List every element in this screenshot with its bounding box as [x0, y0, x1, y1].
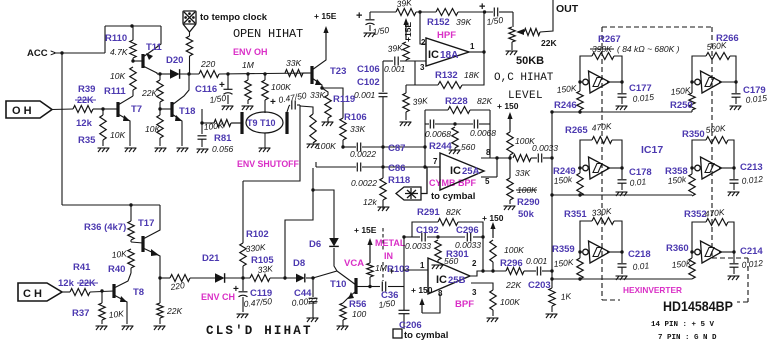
value 18K R132: [464, 70, 479, 80]
value 82K R228: [477, 96, 492, 106]
wire R41 to T8: [90, 291, 114, 292]
svg-text:0.001: 0.001: [526, 256, 548, 266]
resistor R41 12k: [70, 289, 90, 296]
label T11: [146, 42, 163, 53]
svg-text:25B: 25B: [448, 275, 466, 286]
inverter osc1: [583, 71, 610, 93]
ground 0.056 cap: [197, 149, 209, 153]
svg-text:0.0022: 0.0022: [350, 149, 376, 159]
OH input connector: [6, 101, 52, 118]
svg-text:39K: 39K: [456, 17, 471, 27]
svg-text:39K: 39K: [387, 42, 403, 54]
node T11 base: [131, 59, 134, 62]
pin 3 label IC18A: [420, 63, 425, 72]
ground 100K mid: [307, 144, 319, 148]
svg-text:OUT: OUT: [556, 3, 579, 15]
diode D21: [215, 273, 225, 283]
value 4.7K: [110, 47, 128, 57]
ground T8 emitter: [122, 326, 134, 330]
capacitor osc4 out: [730, 168, 739, 190]
svg-text:33K: 33K: [286, 58, 301, 68]
resistor 33K mix: [513, 155, 552, 162]
capacitor 0.47/50: [287, 101, 300, 113]
label R352: [684, 209, 707, 220]
resistor 22K out: [524, 29, 540, 36]
svg-text:100K: 100K: [271, 82, 291, 92]
value 220 env ch: [169, 280, 186, 292]
wire oscillator rail: [551, 112, 553, 271]
label R228: [445, 96, 468, 107]
svg-text:0.056: 0.056: [212, 144, 234, 154]
label R132: [435, 70, 458, 81]
ground C44: [307, 318, 319, 322]
svg-text:R359: R359: [552, 244, 575, 255]
svg-text:R119: R119: [333, 94, 355, 105]
label 25B: [448, 275, 466, 286]
label +15E IC18A: [403, 22, 413, 42]
capacitor C296 0.0033: [467, 233, 470, 242]
wire IC25A output: [481, 158, 510, 177]
svg-text:4.7K: 4.7K: [110, 47, 128, 57]
capacitor C116 1/50: [224, 74, 233, 104]
svg-text:470K: 470K: [704, 207, 725, 219]
label IN: [384, 251, 393, 261]
svg-text:+: +: [219, 80, 225, 91]
value 39K HPF top: [396, 0, 412, 9]
label OPEN HIHAT: [233, 27, 303, 41]
svg-text:22K: 22K: [541, 38, 557, 48]
transistor T10 VCA: [343, 278, 370, 303]
svg-text:( 84 kΩ ~ 680K ): ( 84 kΩ ~ 680K ): [617, 44, 680, 54]
capacitor C36 1/50: [382, 282, 385, 292]
label HEXINVERTER: [623, 285, 682, 295]
value 150K R249: [553, 174, 573, 186]
wire osc6 input: [691, 251, 694, 253]
svg-text:BPF: BPF: [455, 299, 474, 310]
value 22K crossed CH: [77, 278, 98, 288]
resistor 39K bias upper: [403, 42, 409, 61]
transistor T11: [133, 26, 161, 74]
value 560K R266: [706, 40, 727, 52]
value 84 kohm to 680K: [617, 44, 680, 54]
wire osc6 output: [690, 250, 735, 253]
wire out: [540, 0, 553, 32]
ground R119: [322, 122, 334, 126]
node 100K top: [263, 72, 266, 75]
plus sign out cap: [479, 1, 485, 13]
value 10K R37: [108, 308, 124, 320]
label C213: [740, 162, 763, 173]
svg-text:220: 220: [200, 59, 215, 69]
transistor T17: [131, 205, 160, 278]
ground T9 T10 emitters: [259, 148, 271, 152]
label C119: [250, 288, 272, 299]
resistor R119 33K: [322, 88, 331, 122]
svg-text:C296: C296: [456, 225, 479, 236]
svg-text:0.0033: 0.0033: [532, 143, 558, 153]
svg-text:VCA: VCA: [344, 258, 364, 269]
value 0.012 C213: [741, 174, 763, 186]
label D21: [202, 253, 220, 264]
svg-text:R265: R265: [565, 125, 588, 136]
wire HPF top rail: [370, 11, 513, 13]
svg-text:R249: R249: [553, 166, 576, 177]
CH input connector: [18, 283, 62, 301]
wire ACC horizontal: [54, 52, 105, 54]
resistor tempo clock: [186, 32, 192, 74]
wire BPF input rail: [403, 237, 405, 310]
cymbal star connector: [396, 167, 427, 200]
ground osc4 cap: [728, 192, 740, 196]
capacitor osc5 out: [618, 252, 627, 274]
label IC of IC18A: [428, 49, 439, 61]
svg-text:560: 560: [461, 142, 475, 152]
svg-text:33K: 33K: [350, 124, 365, 134]
ground T7 emitter: [125, 148, 137, 152]
label 50KB: [516, 55, 544, 67]
resistor osc5 feedback: [592, 218, 614, 225]
wire 220 to D21: [190, 277, 215, 279]
ground C119: [237, 314, 249, 318]
svg-text:10K: 10K: [110, 130, 125, 140]
node C116: [226, 72, 229, 75]
resistor R246 150K: [577, 82, 583, 112]
label R246: [554, 100, 577, 111]
wire D20 to node: [180, 73, 199, 75]
power +15E arrow IC18A: [403, 18, 408, 40]
svg-text:O,C HIHAT: O,C HIHAT: [494, 72, 554, 84]
wire D21 to R105: [225, 277, 250, 279]
capacitor 0.0068 right: [474, 120, 477, 129]
capacitor C119 electrolytic: [239, 278, 248, 312]
label T9 T10: [247, 118, 276, 128]
svg-text:82K: 82K: [477, 96, 492, 106]
ground 22K under T17: [154, 326, 166, 330]
capacitor C86 0.0022: [357, 163, 360, 172]
resistor 39K bias lower: [403, 85, 409, 120]
wire R291 top: [412, 222, 483, 237]
resistor R102 330K: [240, 181, 246, 278]
label R111: [104, 86, 126, 97]
resistor 10K under T18 base: [157, 109, 163, 146]
value 330K R351: [591, 206, 612, 218]
svg-text:IC: IC: [450, 165, 461, 177]
svg-text:ENV CH: ENV CH: [201, 292, 235, 302]
label R105: [251, 255, 274, 266]
svg-text:R81: R81: [214, 133, 232, 144]
label R118: [388, 175, 410, 186]
svg-text:100K: 100K: [500, 297, 520, 307]
label C36: [381, 290, 398, 301]
svg-text:1: 1: [470, 42, 475, 51]
value 10K of R111: [110, 71, 125, 81]
wire row3 feed: [550, 277, 692, 280]
svg-text:10K: 10K: [111, 248, 127, 260]
svg-text:3: 3: [472, 288, 477, 297]
resistor 22K to T18 base: [157, 74, 163, 109]
resistor 220 env ch: [170, 275, 190, 282]
svg-text:C86: C86: [388, 163, 405, 174]
resistor R56 100: [340, 303, 346, 326]
node ACC junction: [60, 51, 63, 54]
svg-text:330K: 330K: [245, 242, 266, 254]
value 220: [200, 59, 215, 69]
svg-text:22K: 22K: [505, 280, 521, 290]
svg-text:HPF: HPF: [437, 30, 456, 41]
svg-text:+ 15E: + 15E: [314, 11, 337, 21]
pin 2 label IC25B: [472, 259, 477, 268]
value 39K bias lower: [412, 95, 428, 107]
value 82K R291: [446, 207, 461, 217]
svg-text:CLS'D HIHAT: CLS'D HIHAT: [206, 324, 313, 338]
label R110: [105, 33, 127, 44]
wire osc3 output: [578, 166, 623, 169]
capacitor C87 0.0022: [357, 143, 360, 152]
svg-text:R36 (4k7): R36 (4k7): [84, 222, 126, 233]
label 12k CH: [58, 278, 75, 289]
svg-text:8: 8: [486, 148, 491, 157]
ground R301: [432, 265, 444, 269]
value 150K R360: [671, 258, 692, 270]
ground 10K T18: [155, 148, 167, 152]
wire R228 top: [425, 110, 490, 124]
svg-text:2: 2: [421, 38, 426, 47]
svg-text:T11: T11: [146, 42, 163, 53]
svg-text:10K: 10K: [145, 124, 160, 134]
svg-text:R106: R106: [344, 112, 367, 123]
value 100K of R81: [203, 120, 224, 132]
label C296: [456, 225, 479, 236]
label C192: [416, 225, 439, 236]
svg-text:C87: C87: [388, 143, 405, 154]
label LEVEL: [508, 90, 543, 102]
resistor R228 82K: [448, 107, 470, 114]
svg-text:10K: 10K: [110, 71, 125, 81]
svg-text:+15E: +15E: [403, 22, 413, 42]
svg-text:2: 2: [472, 259, 477, 268]
wire osc1 feedback box: [580, 56, 622, 82]
svg-text:3: 3: [420, 63, 425, 72]
capacitor 0.0068 left: [430, 120, 433, 129]
svg-text:1M: 1M: [375, 263, 388, 273]
resistor osc6 feedback: [706, 219, 728, 226]
svg-text:METAL: METAL: [375, 238, 406, 248]
svg-text:ENV OH: ENV OH: [233, 47, 268, 57]
label 25A: [462, 166, 480, 177]
plus sign HPF input cap: [356, 10, 362, 22]
wire C87 row: [343, 146, 425, 148]
label R81: [214, 133, 232, 144]
svg-text:C H: C H: [23, 288, 42, 300]
svg-text:R39: R39: [78, 84, 95, 95]
label C218: [628, 249, 651, 260]
svg-text:0.0022: 0.0022: [351, 178, 377, 188]
svg-text:330K: 330K: [591, 206, 612, 218]
node 100K upper BPF: [481, 269, 494, 272]
value 0.01 C218: [632, 260, 650, 272]
label ENV CH: [201, 292, 235, 302]
label C206: [399, 320, 422, 331]
svg-text:100K: 100K: [504, 245, 524, 255]
svg-text:100K: 100K: [316, 141, 336, 151]
value 33K T23: [286, 58, 301, 68]
wire signal rail vertical: [382, 61, 384, 92]
value 100K above node: [515, 136, 535, 146]
value 100K crossed R290: [516, 185, 537, 195]
wire osc2 input: [691, 81, 694, 83]
svg-text:0.01: 0.01: [632, 260, 650, 272]
svg-text:D8: D8: [293, 258, 305, 269]
svg-text:R296: R296: [500, 258, 523, 269]
svg-text:220: 220: [169, 280, 186, 292]
value 0.47/50 C119: [243, 296, 273, 309]
value 0.0033 mix: [532, 143, 558, 153]
svg-text:12k: 12k: [363, 197, 377, 207]
ground R56: [337, 326, 349, 330]
label IC of IC25B: [436, 274, 447, 286]
value 39K bias upper: [387, 42, 403, 54]
wire ACC rail down to CH section: [61, 53, 63, 205]
wire T17 rail: [62, 204, 160, 206]
label R39: [78, 84, 95, 95]
node T17 emitter: [158, 276, 161, 279]
svg-text:0.0068: 0.0068: [470, 128, 496, 138]
svg-text:R350: R350: [682, 129, 705, 140]
label R56: [349, 299, 366, 310]
label R36 (4k7): [84, 222, 126, 233]
value 12k R118: [363, 197, 377, 207]
label C87: [388, 143, 405, 154]
label C178: [629, 167, 652, 178]
value 39K R152: [456, 17, 471, 27]
svg-text:R351: R351: [564, 209, 587, 220]
svg-text:R132: R132: [435, 70, 458, 81]
value 330K R102: [245, 242, 266, 254]
label T7: [131, 104, 142, 115]
resistor R35 value 10K: [100, 109, 106, 146]
label R265: [565, 125, 588, 136]
value 33K R119: [310, 90, 325, 100]
power +15E arrow T23: [323, 26, 328, 40]
wire osc5 output: [578, 250, 623, 253]
dashed outline HD14584BP: [602, 27, 748, 302]
label 7 PIN GND: [658, 334, 717, 341]
ground R244: [449, 150, 461, 154]
value 0.0033 C296: [455, 240, 481, 250]
ACC input label: [27, 48, 56, 59]
svg-text:1K: 1K: [560, 291, 572, 302]
svg-text:560K: 560K: [705, 123, 726, 135]
label R301: [446, 249, 469, 260]
label R360: [666, 243, 689, 254]
svg-text:C106: C106: [357, 64, 380, 75]
value 1/50 C116: [209, 93, 227, 105]
label +150 IC25A: [497, 101, 519, 111]
svg-text:C203: C203: [528, 280, 551, 291]
resistor 22K under T17: [157, 278, 163, 324]
diode D6: [329, 238, 339, 246]
resistor R290 50k: [507, 158, 513, 204]
wire 100K mid branch: [300, 106, 313, 114]
svg-text:0.001: 0.001: [354, 90, 376, 100]
node R301 top: [436, 235, 439, 238]
value 390K crossed: [590, 44, 614, 54]
capacitor 0.056: [198, 136, 207, 147]
wire R105 to D8: [270, 277, 296, 279]
label R102: [246, 229, 269, 240]
svg-text:0.0068: 0.0068: [425, 129, 451, 139]
svg-text:12k: 12k: [58, 278, 75, 289]
label T18: [179, 106, 195, 117]
resistor R249 150K: [577, 168, 583, 196]
capacitor osc2 out: [732, 82, 741, 104]
wire ACC up to R110 rail: [104, 26, 106, 53]
svg-text:+: +: [389, 266, 394, 276]
value 560 R301: [444, 256, 458, 266]
label R152: [427, 17, 450, 28]
ground T18 emitter: [177, 148, 189, 152]
svg-text:R102: R102: [246, 229, 269, 240]
value 22K out: [541, 38, 557, 48]
svg-text:10K: 10K: [108, 308, 124, 320]
svg-text:50k: 50k: [518, 209, 535, 220]
capacitor C106 0.001: [395, 57, 398, 66]
power +150 arrow IC25A: [507, 112, 512, 130]
ground osc2 cap: [730, 106, 742, 110]
svg-text:0.01: 0.01: [629, 176, 647, 188]
label OUT: [556, 3, 579, 15]
value 0.0022 C87: [350, 149, 376, 159]
wire row2 feed: [550, 193, 692, 196]
wire to level pot: [512, 12, 514, 27]
value 22K under T17: [166, 306, 182, 316]
svg-text:1M: 1M: [242, 60, 255, 70]
capacitor C206: [399, 310, 410, 329]
label R296: [500, 258, 523, 269]
ground 39K bias lower: [400, 122, 412, 126]
svg-text:R152: R152: [427, 17, 450, 28]
ground R118: [378, 207, 390, 211]
svg-text:560K: 560K: [706, 40, 727, 52]
value 1/50 C36: [378, 298, 396, 310]
value 100K lower BPF: [500, 297, 520, 307]
value 0.01 C178: [629, 176, 647, 188]
value 22K: [141, 88, 157, 98]
label T17: [138, 218, 154, 229]
value 560K R350: [705, 123, 726, 135]
svg-text:150K: 150K: [553, 257, 574, 269]
wire D8 to VCA: [306, 271, 356, 285]
plus sign C119: [233, 284, 239, 295]
wire pin7 IC25A: [425, 166, 440, 168]
resistor 100K lower BPF: [490, 290, 496, 310]
power +15E arrow VCA: [367, 238, 372, 263]
value 0.001 C203: [526, 256, 548, 266]
wire osc4 input: [691, 167, 694, 169]
capacitor C192 0.0033: [422, 233, 425, 242]
label METAL: [375, 238, 406, 248]
resistor R291 82K: [438, 219, 458, 226]
svg-text:100: 100: [352, 309, 366, 319]
label T23: [330, 66, 346, 77]
ground R290: [504, 206, 516, 210]
wire R39 to T7 base: [93, 108, 103, 110]
label HPF: [437, 30, 456, 41]
value 100K upper BPF: [504, 245, 524, 255]
ground 100K lower: [487, 318, 499, 322]
svg-text:R110: R110: [105, 33, 127, 44]
inverter osc5: [583, 241, 610, 263]
